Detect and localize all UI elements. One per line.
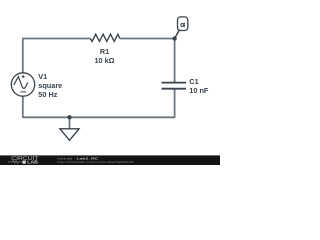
svg-text:LAB: LAB <box>27 160 38 165</box>
svg-text:10 kΩ: 10 kΩ <box>94 56 114 65</box>
svg-text:10 nF: 10 nF <box>189 86 209 95</box>
svg-text:R1: R1 <box>100 47 109 56</box>
svg-text:square: square <box>38 81 62 90</box>
svg-text:50 Hz: 50 Hz <box>38 90 57 99</box>
svg-text:http://circuitlab.com/c/myku3w: http://circuitlab.com/c/myku3w23q5k9r48 <box>57 160 133 164</box>
svg-text:C1: C1 <box>189 77 198 86</box>
svg-text:V1: V1 <box>38 72 47 81</box>
